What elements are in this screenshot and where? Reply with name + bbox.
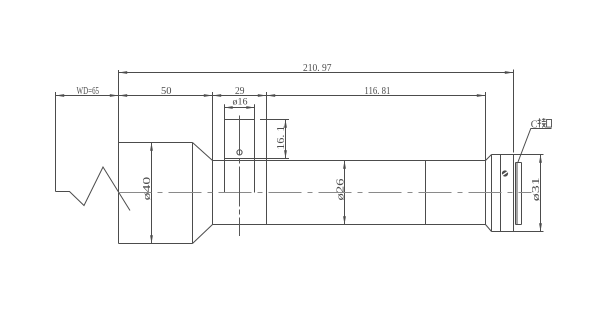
C-mount flange right face	[521, 163, 523, 225]
cone taper bottom	[193, 225, 213, 244]
svg-text:ø16: ø16	[233, 98, 248, 108]
svg-text:WD=65: WD=65	[77, 86, 100, 97]
C-mount flange inner line	[516, 163, 518, 225]
extension lines 16.1	[260, 119, 289, 121]
tube phi26 bottom edge	[213, 224, 486, 226]
dimension phi31	[540, 155, 542, 232]
svg-text:116. 81: 116. 81	[364, 86, 390, 97]
dimension phi16	[225, 107, 255, 109]
arrow pair at front face x=118.5	[110, 94, 119, 97]
C-mount flange top edge	[516, 162, 522, 164]
ring top edge + phi31 top extension	[492, 154, 544, 156]
svg-text:C: C	[531, 119, 538, 130]
svg-text:29: 29	[235, 86, 245, 97]
arrow right of 210.97	[505, 71, 514, 74]
ring chamfer vertical	[491, 155, 493, 232]
vertical centerline of phi16 block	[239, 116, 241, 237]
arrow pair at x=266.5	[258, 94, 267, 97]
extension line + tube right face x=485.5	[485, 92, 487, 225]
extension line + front face x=118.5	[118, 70, 120, 244]
ring chamfer bottom-left	[486, 225, 492, 232]
svg-text:50: 50	[161, 86, 172, 97]
ring chamfer top-left	[486, 155, 492, 161]
phi40 cylinder bottom edge	[119, 243, 193, 245]
dimension phi26	[344, 161, 346, 225]
arrow right of 116.81	[477, 94, 486, 97]
phi16 block left edge + extension + bore line	[224, 104, 226, 192]
arrow left of 210.97	[119, 71, 128, 74]
C-mount flange left line	[515, 163, 517, 225]
hanzi JIE (of C interface label)	[538, 118, 546, 127]
phi16 block top edge	[225, 119, 255, 121]
dimension line 210.97 (overall length)	[119, 72, 514, 74]
arrow left of WD=65	[56, 94, 65, 97]
extension line + joint x=212.5	[212, 92, 214, 225]
cone taper top	[193, 143, 213, 161]
hanzi KOU (mouth/port box)	[547, 120, 552, 128]
ring joint vertical	[500, 155, 502, 232]
leader line C-mount	[518, 129, 552, 163]
svg-text:210. 97: 210. 97	[303, 63, 332, 74]
svg-text:ø31: ø31	[531, 177, 542, 201]
ring right face	[513, 155, 515, 232]
svg-text:16. 1: 16. 1	[276, 126, 287, 150]
object plane zigzag break line	[56, 167, 131, 211]
dimension phi40	[151, 143, 153, 244]
tube joint x=425.5	[425, 161, 427, 225]
phi40 cylinder right joint	[192, 143, 194, 244]
svg-text:ø26: ø26	[336, 179, 347, 201]
svg-text:ø40: ø40	[142, 177, 153, 201]
C-mount flange bottom edge	[516, 224, 522, 226]
arrow pair at x=212.5	[204, 94, 213, 97]
phi40 cylinder top edge	[119, 142, 193, 144]
phi16 block base flange line	[225, 158, 255, 160]
set screw	[502, 170, 508, 176]
extension line + joint x=266.5	[266, 92, 268, 225]
dimension line row WD=65 / 50 / 29 / 116.81	[56, 95, 486, 97]
ring bottom edge + phi31 bottom extension	[492, 231, 544, 233]
phi16 block right edge + extension + bore line	[254, 104, 256, 192]
horizontal centerline (optical axis)	[119, 192, 532, 194]
tube phi26 top edge	[213, 160, 486, 162]
extension line right of 210.97	[513, 70, 515, 153]
small circle on block	[237, 150, 242, 155]
dimension 16.1 (block height)	[285, 120, 287, 159]
extension line WD left	[55, 92, 57, 192]
